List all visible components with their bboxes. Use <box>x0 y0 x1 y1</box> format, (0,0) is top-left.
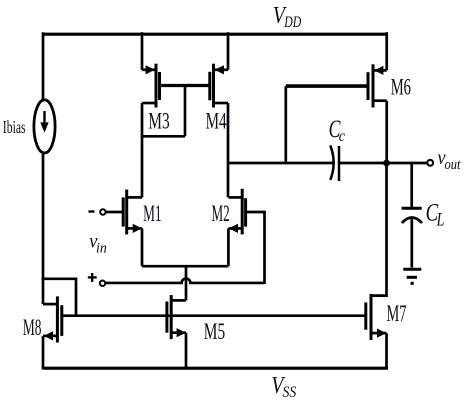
wire M5 source to VSS <box>185 333 188 370</box>
svg-text:L: L <box>436 210 445 230</box>
wire gate bias line M8-M5-M7 <box>62 314 366 317</box>
wire M6 drain to output node <box>385 101 388 163</box>
wire M6 gate tap vertical <box>284 86 287 163</box>
svg-text:M5: M5 <box>204 319 225 345</box>
wire VDD to M3 source <box>141 32 144 70</box>
transistor M7 <box>366 294 387 340</box>
wire M8 diode link (drain to gate) <box>43 279 76 316</box>
svg-text:M7: M7 <box>387 301 407 327</box>
wire Cc to output node <box>339 162 387 165</box>
wire CL to ground <box>410 219 413 268</box>
wire M1 source to tail <box>141 228 144 266</box>
terminal vout <box>427 160 433 166</box>
label plus sign <box>88 273 97 282</box>
wire output node to vout terminal <box>387 162 428 165</box>
wire tail to M5 drain <box>171 299 186 302</box>
wire vout node to CL tap <box>410 163 413 208</box>
svg-text:M3: M3 <box>148 109 170 135</box>
capacitor CL <box>402 208 422 223</box>
wire plus input to M2 gate drop <box>105 279 264 283</box>
wire M2 gate lead and drop <box>246 212 265 284</box>
svg-text:M8: M8 <box>23 315 42 341</box>
svg-text:in: in <box>96 240 107 256</box>
wire M3 diode tap (gate wire down) <box>184 86 187 137</box>
node output junction dot <box>383 160 390 167</box>
svg-text:SS: SS <box>283 384 297 401</box>
wire VDD to M4 source <box>227 32 230 70</box>
wire VDD to M6 source <box>385 32 388 70</box>
transistor M3 <box>142 64 160 108</box>
wire VDD to Ibias <box>42 32 45 101</box>
wire stage1 output to Cc <box>228 162 333 165</box>
wire M7 source to VSS <box>385 333 388 369</box>
wire M3 diode tap horizontal <box>142 135 185 138</box>
wire node to M8 drain <box>42 278 45 305</box>
transistor M8 <box>43 296 62 342</box>
transistor M5 <box>167 295 186 339</box>
wire VDD rail <box>43 33 388 36</box>
label minus sign <box>89 210 95 212</box>
wire tail line <box>142 265 228 268</box>
wire tail tap down to M5 drain <box>185 265 188 300</box>
svg-text:M1: M1 <box>143 201 162 227</box>
transistor M4 <box>210 64 228 108</box>
wire M4 drain to M2 drain <box>227 103 230 197</box>
svg-text:M6: M6 <box>391 75 411 101</box>
wire M3-M4 gate wire <box>160 84 210 87</box>
svg-text:out: out <box>445 157 462 173</box>
svg-text:M2: M2 <box>212 201 230 227</box>
svg-text:DD: DD <box>283 14 301 31</box>
svg-text:c: c <box>339 128 345 145</box>
ground <box>403 269 421 283</box>
transistor M2 <box>228 189 245 235</box>
terminal minus input <box>100 209 105 214</box>
capacitor Cc <box>330 146 339 182</box>
svg-text:M4: M4 <box>206 109 227 135</box>
wire output node down to M7 drain <box>371 163 387 296</box>
wire M2 source to tail <box>227 228 230 266</box>
terminal plus input <box>100 281 105 286</box>
wire Ibias to M8 drain node <box>42 153 45 281</box>
wire M3 drain to M1 drain <box>141 103 144 197</box>
transistor M6 <box>368 64 387 107</box>
wire M8 source to VSS <box>42 336 45 370</box>
transistor M1 <box>106 190 142 235</box>
wire VSS rail <box>43 367 388 370</box>
wire M6 gate line <box>286 84 368 88</box>
svg-text:Ibias: Ibias <box>3 117 26 137</box>
current source Ibias <box>34 100 55 153</box>
